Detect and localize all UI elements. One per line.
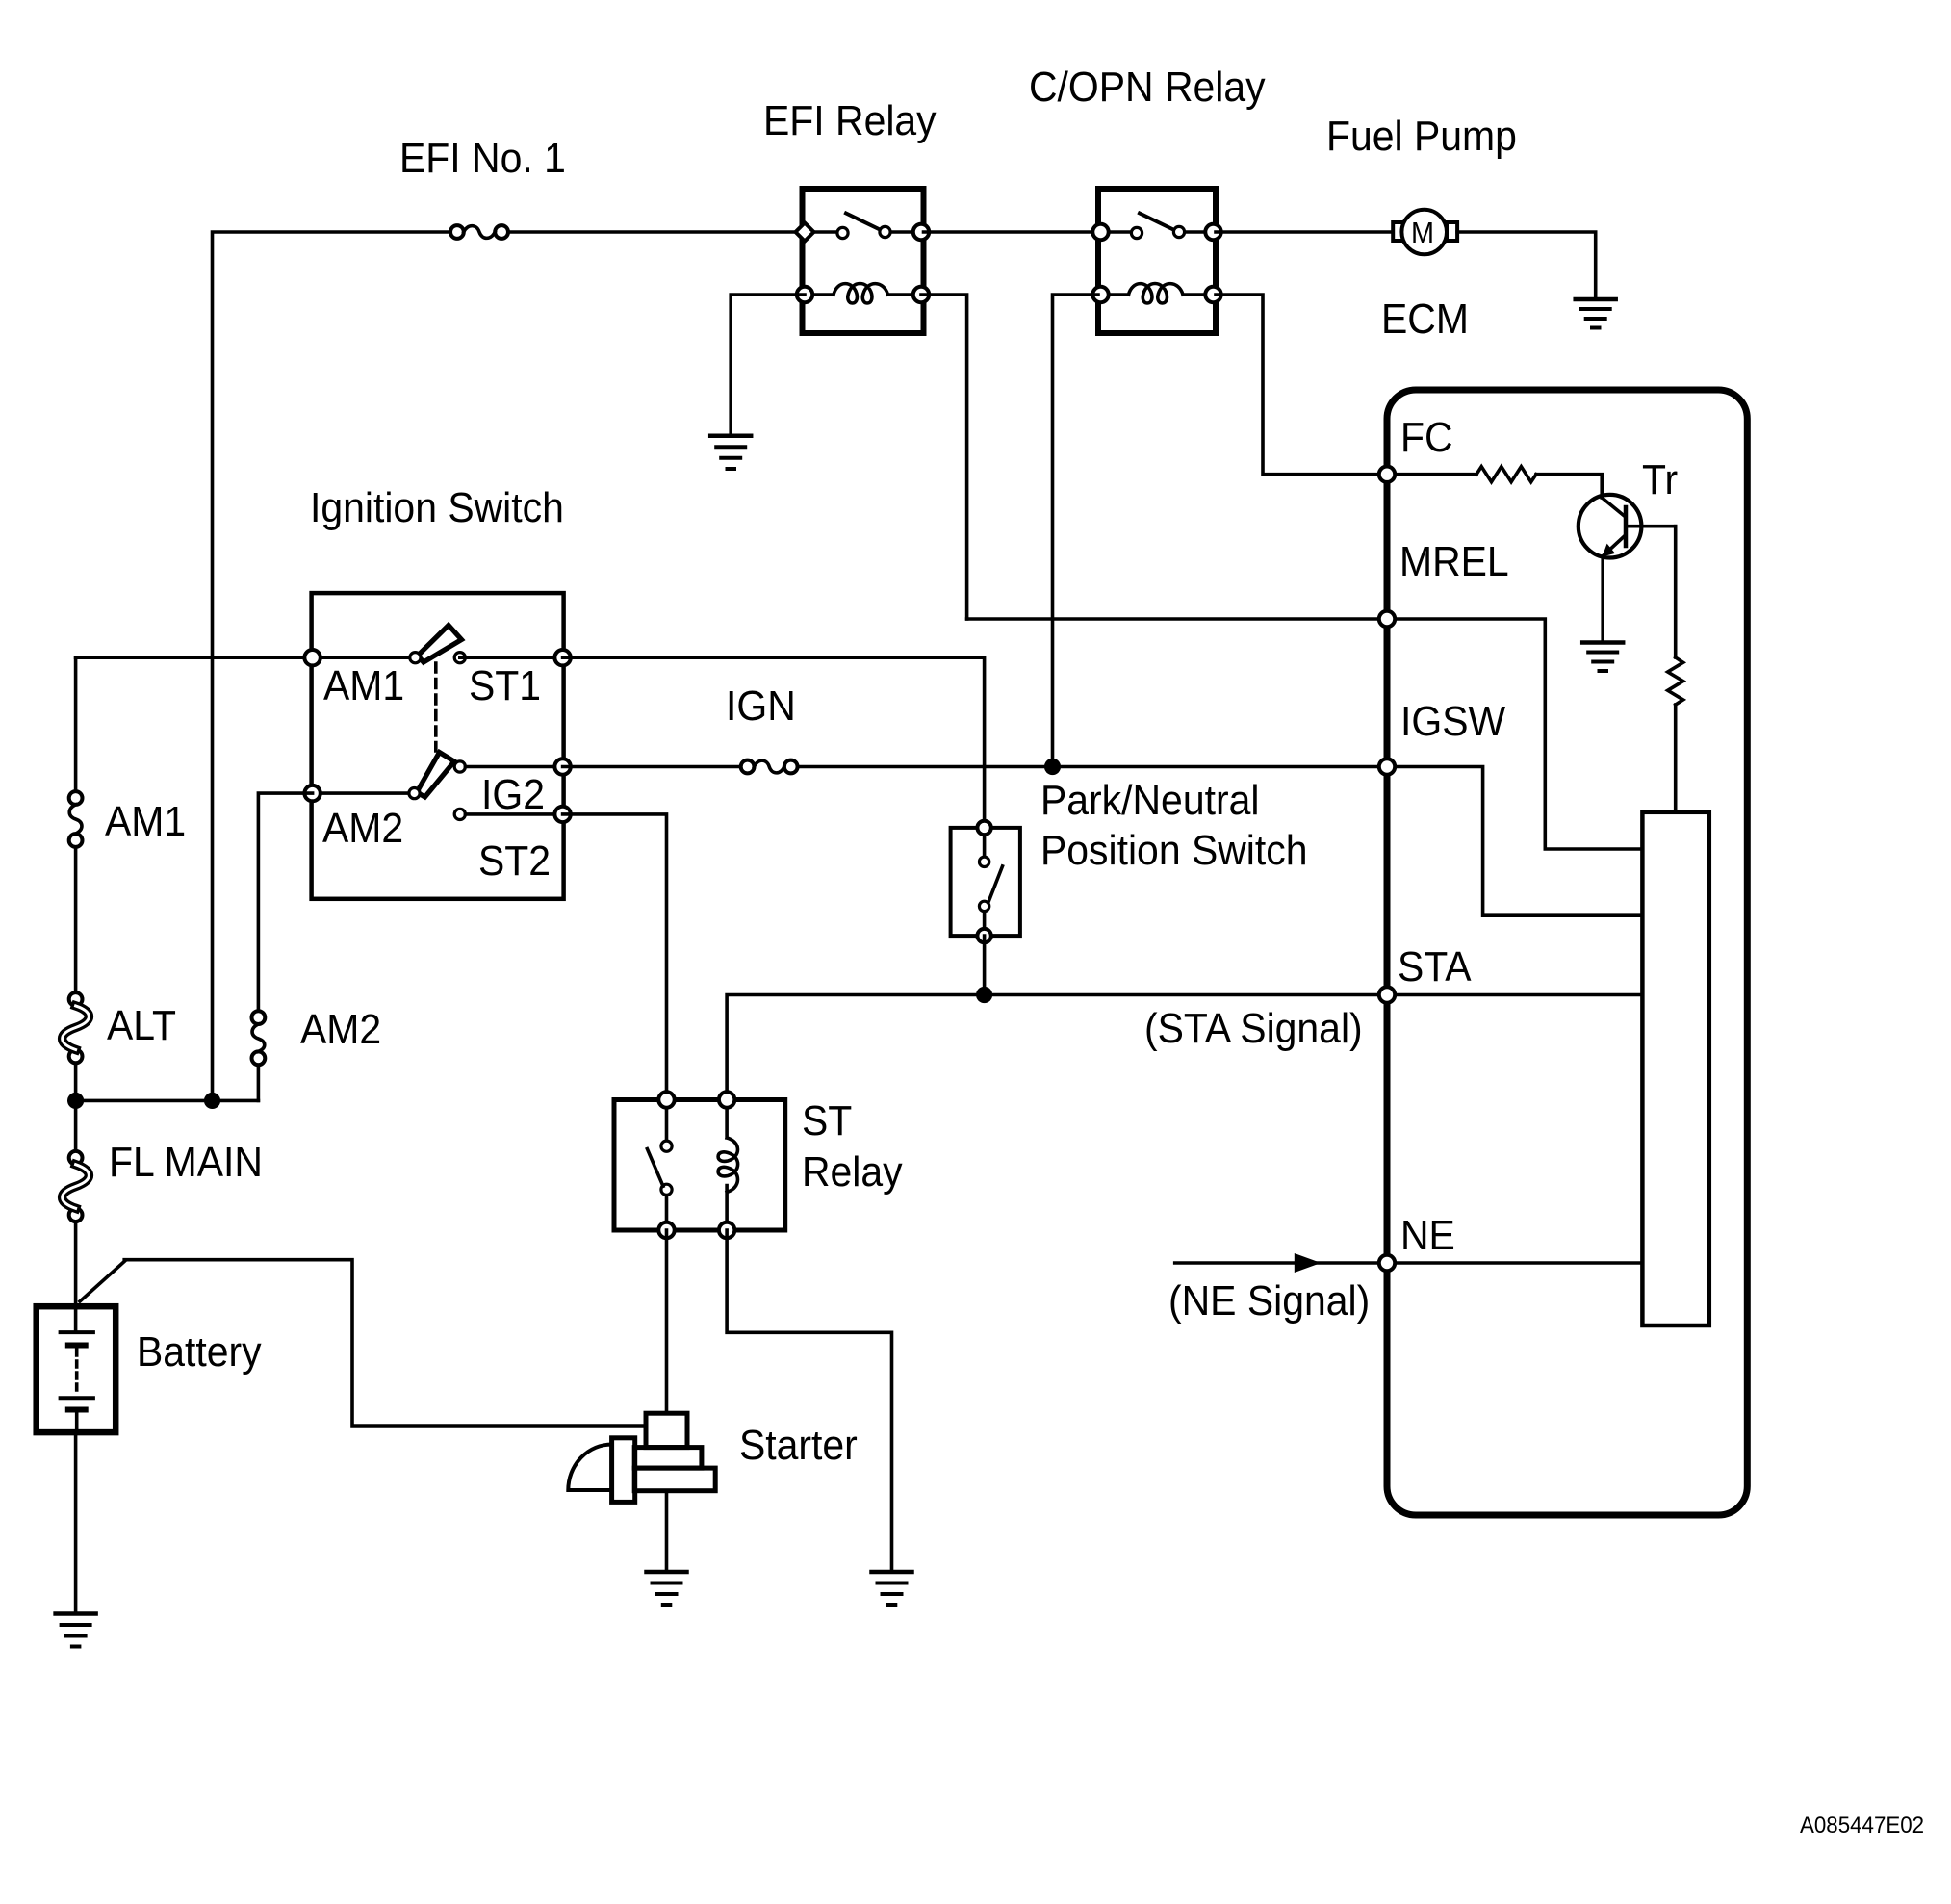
label: IGN: [726, 685, 796, 728]
label: AM1: [105, 801, 186, 843]
contact + wire ST2: [454, 809, 562, 819]
fuse EFI No. 1: [450, 225, 508, 239]
label: STA: [1398, 946, 1472, 989]
wire: NE run inside ECM: [1387, 1261, 1642, 1265]
wire: FC to resistor and transistor base: [1396, 473, 1476, 476]
contact + wire IG2: [454, 761, 562, 772]
wire: NE signal line with arrow: [1175, 1253, 1378, 1273]
label: FL MAIN: [109, 1142, 263, 1184]
label: EFI Relay: [763, 100, 937, 142]
dashed link between blades: [434, 663, 438, 751]
wire: P/N switch to STA line: [983, 936, 987, 994]
pin FC: [1379, 467, 1395, 482]
wire: left column top: [74, 657, 78, 791]
label: NE: [1400, 1215, 1455, 1257]
ground (ST relay coil): [872, 1572, 912, 1605]
wire: STA signal line: [727, 995, 1387, 1100]
wire: resistor to transistor: [1536, 475, 1602, 498]
junction bus at FL MAIN: [67, 1093, 258, 1109]
label: ALT: [107, 1005, 176, 1047]
wire: ALT to junction: [74, 1063, 78, 1100]
terminal IG2 (edge): [554, 759, 570, 774]
wire: FL MAIN to battery: [74, 1222, 78, 1332]
label: Ignition Switch: [310, 487, 564, 529]
starter motor: [568, 1413, 715, 1502]
battery positive leader (diagonal): [80, 1262, 124, 1302]
ground (EFI relay): [710, 436, 751, 469]
switch blade AM1-ST1: [418, 626, 462, 663]
wire: ST1 to park/neutral switch: [563, 657, 985, 828]
relay C/OPN Relay: [1092, 189, 1220, 333]
wire: fuse to EFI relay: [508, 230, 805, 234]
wire: IGSW run inside ECM: [1387, 767, 1642, 916]
pin STA: [1379, 987, 1395, 1002]
wire: EFI No.1 feed from junction up/right to fuse: [213, 232, 451, 1100]
wire + ground: motor to ground: [1457, 232, 1596, 297]
wire: ST relay switch to starter: [665, 1230, 669, 1413]
label: MREL: [1399, 541, 1509, 583]
switch blade AM2-IG2: [417, 753, 454, 798]
wire: ST2 to ST relay: [563, 814, 667, 1100]
label: Park/Neutral: [1040, 780, 1259, 822]
wire: IGN line with fuse: [563, 760, 1378, 774]
transistor Tr: [1579, 495, 1676, 558]
wire: C/OPN coil right down to FC line: [1216, 295, 1378, 475]
label: AM2: [300, 1009, 381, 1051]
wire: STA run inside ECM: [1387, 993, 1642, 997]
junction: C/OPN coil on IGN line: [1044, 759, 1061, 775]
wire: EFI relay coil right, down to MREL line: [921, 295, 967, 619]
ECM box: [1387, 390, 1747, 1515]
wire: C/OPN relay to fuel pump motor: [1216, 230, 1393, 234]
resistor (base): [1476, 467, 1536, 482]
terminal ST2 (edge): [554, 807, 570, 822]
fuse AM1: [69, 791, 83, 847]
wire + ground: ST relay coil: [727, 1230, 891, 1570]
wire: AM2 fuse to junction bus: [257, 1065, 261, 1100]
label: ST1: [469, 665, 541, 708]
label: Fuel Pump: [1326, 116, 1517, 158]
label: Tr: [1642, 459, 1678, 502]
wire: AM1 to contact: [313, 656, 416, 659]
relay EFI Relay: [796, 189, 930, 333]
wire: AM2 terminal to pivot: [313, 791, 415, 795]
internal block (ECM): [1642, 812, 1708, 1325]
pin NE: [1379, 1255, 1395, 1271]
wire: ST1 contact to right edge: [460, 656, 563, 659]
label: AM2: [322, 808, 403, 850]
wire: collector to resistor R (pull): [1674, 527, 1678, 657]
junction: P/N on STA line: [976, 987, 992, 1003]
label: FC: [1400, 417, 1453, 459]
ignition switch box: [312, 593, 564, 899]
terminal AM2 (edge): [304, 785, 320, 801]
ground (fuel pump): [1576, 299, 1616, 328]
pin MREL: [1379, 611, 1395, 627]
wire: EFI relay to C/OPN relay: [924, 230, 1099, 234]
wire: MREL feed line: [967, 617, 1387, 621]
wire + ground: transistor emitter: [1601, 556, 1604, 641]
pin IGSW: [1379, 759, 1395, 774]
label: Battery: [137, 1331, 262, 1374]
ground (battery): [56, 1614, 96, 1647]
label: (STA Signal): [1144, 1008, 1363, 1050]
label: Position Switch: [1040, 830, 1307, 872]
wire: battery column to AM1 terminal: [76, 656, 313, 659]
fuse AM2: [252, 1011, 266, 1065]
fusible link FL MAIN: [63, 1151, 90, 1222]
battery: [37, 1306, 116, 1432]
label: ST: [802, 1100, 852, 1143]
terminal ST1 (edge): [554, 650, 570, 665]
wire + ground: battery negative: [74, 1432, 78, 1611]
wire: battery to starter: [124, 1260, 646, 1426]
wire: resistor to internal block: [1674, 705, 1678, 812]
label: AM1: [323, 665, 404, 708]
resistor (collector pull): [1668, 657, 1683, 705]
wire: junction to FL MAIN: [74, 1100, 78, 1151]
wire + ground: EFI relay coil to ground: [731, 295, 805, 434]
AM2 branch wire: [258, 793, 312, 1011]
label: (NE Signal): [1168, 1280, 1370, 1323]
motor M (Fuel Pump): [1393, 210, 1457, 255]
label: ECM: [1381, 298, 1469, 341]
relay ST Relay: [614, 1092, 785, 1238]
fusible link ALT: [63, 992, 90, 1063]
wire: AM1 fuse to ALT link: [74, 847, 78, 992]
terminal AM1 (edge): [304, 650, 320, 665]
label: ST2: [478, 840, 551, 883]
contact circles (AM1/ST1): [410, 653, 466, 663]
contact circle (AM2 pivot): [409, 788, 420, 799]
label: IGSW: [1400, 701, 1505, 743]
label: Relay: [802, 1151, 903, 1194]
ground (transistor): [1582, 643, 1623, 672]
label: IG2: [481, 774, 545, 816]
label: EFI No. 1: [399, 138, 566, 180]
ground (starter): [647, 1572, 687, 1605]
label: C/OPN Relay: [1029, 66, 1266, 109]
wire + ground: starter: [665, 1491, 669, 1570]
label: A085447E02: [1800, 1814, 1924, 1838]
wire: C/OPN coil left down to IGN line: [1053, 295, 1099, 767]
park/neutral position switch: [951, 821, 1020, 943]
label: M (motor): [1411, 218, 1434, 247]
label: Starter: [739, 1425, 858, 1467]
wire: MREL run inside ECM: [1387, 619, 1642, 849]
